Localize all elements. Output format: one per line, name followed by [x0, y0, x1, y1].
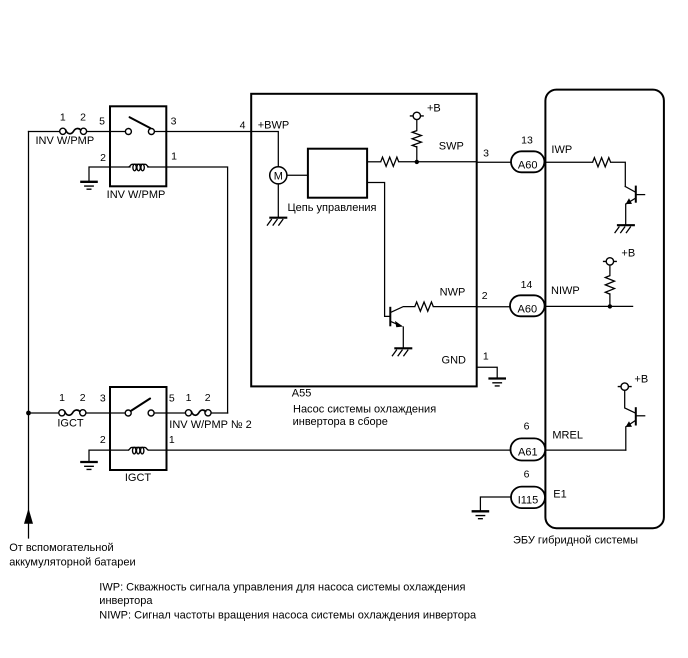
svg-text:IGCT: IGCT — [57, 417, 84, 429]
svg-text:аккумуляторной батареи: аккумуляторной батареи — [9, 557, 135, 569]
svg-text:1: 1 — [171, 151, 177, 163]
svg-text:INV W/PMP: INV W/PMP — [107, 189, 166, 201]
svg-text:3: 3 — [100, 393, 106, 405]
svg-text:2: 2 — [100, 152, 106, 164]
svg-text:2: 2 — [80, 392, 86, 404]
svg-text:A61: A61 — [518, 447, 538, 459]
svg-text:I115: I115 — [518, 495, 539, 507]
svg-text:MREL: MREL — [552, 429, 583, 441]
svg-text:IGCT: IGCT — [125, 472, 152, 484]
svg-text:5: 5 — [169, 393, 175, 405]
svg-text:+B: +B — [427, 103, 441, 115]
svg-text:3: 3 — [171, 116, 177, 128]
svg-text:13: 13 — [521, 134, 533, 146]
svg-text:5: 5 — [99, 116, 105, 128]
svg-text:6: 6 — [524, 469, 530, 481]
svg-text:M: M — [274, 170, 283, 182]
svg-text:+B: +B — [621, 247, 635, 259]
svg-text:3: 3 — [483, 148, 489, 160]
svg-text:NIWP: Сигнал частоты вращения: NIWP: Сигнал частоты вращения насоса сис… — [99, 610, 477, 622]
svg-text:инвертора: инвертора — [99, 595, 153, 607]
svg-text:A60: A60 — [518, 160, 538, 172]
svg-text:NWP: NWP — [440, 287, 466, 299]
svg-text:IWP: IWP — [551, 144, 572, 156]
svg-text:6: 6 — [524, 421, 530, 433]
svg-text:От вспомогательной: От вспомогательной — [9, 542, 113, 554]
svg-text:1: 1 — [60, 111, 66, 123]
svg-text:1: 1 — [59, 392, 65, 404]
svg-text:2: 2 — [80, 111, 86, 123]
svg-text:GND: GND — [442, 355, 467, 367]
svg-text:A60: A60 — [518, 304, 538, 316]
svg-text:2: 2 — [100, 434, 106, 446]
svg-text:A55: A55 — [292, 387, 312, 399]
svg-text:INV W/PMP № 2: INV W/PMP № 2 — [169, 419, 252, 431]
svg-text:Насос системы охлаждения: Насос системы охлаждения — [293, 403, 436, 415]
svg-text:E1: E1 — [553, 489, 566, 501]
svg-text:+B: +B — [634, 373, 648, 385]
svg-text:2: 2 — [482, 290, 488, 302]
svg-text:ЭБУ гибридной системы: ЭБУ гибридной системы — [513, 535, 638, 547]
svg-text:NIWP: NIWP — [551, 285, 580, 297]
svg-text:IWP: Скважность сигнала управл: IWP: Скважность сигнала управления для н… — [99, 582, 465, 594]
svg-text:INV W/PMP: INV W/PMP — [36, 135, 95, 147]
svg-text:+BWP: +BWP — [258, 120, 289, 132]
svg-text:14: 14 — [521, 279, 533, 291]
svg-text:1: 1 — [483, 351, 489, 363]
svg-text:инвертора в сборе: инвертора в сборе — [293, 416, 388, 428]
svg-text:4: 4 — [240, 120, 246, 132]
svg-text:1: 1 — [186, 392, 192, 404]
svg-text:SWP: SWP — [439, 141, 464, 153]
svg-text:1: 1 — [169, 434, 175, 446]
svg-text:2: 2 — [205, 392, 211, 404]
svg-text:Цепь управления: Цепь управления — [288, 202, 377, 214]
